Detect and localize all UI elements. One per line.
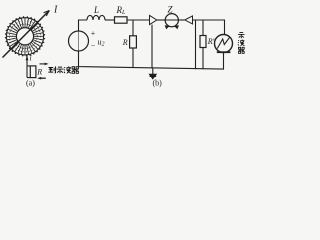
svg-text:R: R (36, 68, 42, 77)
connector triangle left-pointing (185, 16, 193, 24)
wire from coil to resistor R (26, 55, 28, 78)
arrowhead of current I (44, 11, 50, 17)
cable shield drop left (151, 25, 153, 69)
svg-text:R′: R′ (207, 37, 215, 46)
ground bars (148, 74, 157, 80)
conductor wire through toroid (3, 11, 50, 58)
svg-text:I: I (53, 5, 58, 16)
svg-text:+: + (91, 29, 96, 38)
resistor RL (series) (115, 17, 128, 23)
oscilloscope stem bottom (223, 53, 225, 70)
wire through cable circle (165, 19, 179, 21)
rogowski coil toroid: radial hatching (5, 16, 45, 56)
wire triangle to cable circle (157, 19, 165, 21)
stub wires to resistor R (27, 66, 30, 78)
cable foot left (165, 25, 170, 29)
svg-text:−: − (91, 42, 96, 51)
svg-text:R: R (122, 38, 128, 47)
cable foot right (174, 25, 179, 29)
resistor R' stem bottom (202, 48, 204, 70)
wire RL to connector (127, 19, 150, 21)
arrowhead i on wire (26, 55, 29, 60)
ground stem (152, 68, 154, 74)
toroid inner circle (16, 28, 33, 45)
resistor R (b) box (130, 36, 137, 48)
arrow to oscilloscope (top) (40, 63, 47, 65)
oscilloscope trace (217, 37, 230, 49)
svg-text:(b): (b) (153, 79, 163, 88)
resistor R' stem top (202, 20, 204, 36)
line through source (78, 31, 80, 51)
cable shield drop right (195, 20, 197, 69)
wire circle to left-pointing triangle (179, 19, 185, 21)
voltage source u2 circle (69, 31, 89, 51)
text 到示波器 (48, 66, 55, 73)
vertical text 示波器 (238, 33, 244, 39)
resistor R (b) stem top (132, 20, 134, 36)
svg-text:i: i (30, 54, 32, 63)
oscilloscope base tick (217, 51, 231, 53)
svg-text:L: L (93, 5, 99, 15)
cable circle Z (165, 14, 178, 27)
connector triangle right-pointing (150, 15, 157, 24)
toroid outer circle (6, 18, 43, 55)
resistor R (b) stem bottom (132, 48, 134, 68)
toroid winding texture (13, 24, 37, 48)
bottom rail (79, 51, 224, 69)
resistor R' box (200, 36, 206, 48)
arrow return (bottom, pointing left) (39, 77, 46, 79)
wire from source up (79, 20, 88, 31)
svg-text:(a): (a) (26, 79, 35, 88)
top wire to right corner (193, 20, 225, 35)
inductor L (87, 15, 105, 20)
oscilloscope circle (215, 35, 233, 53)
wire L to RL (105, 19, 115, 21)
resistor R (a) (30, 66, 36, 78)
